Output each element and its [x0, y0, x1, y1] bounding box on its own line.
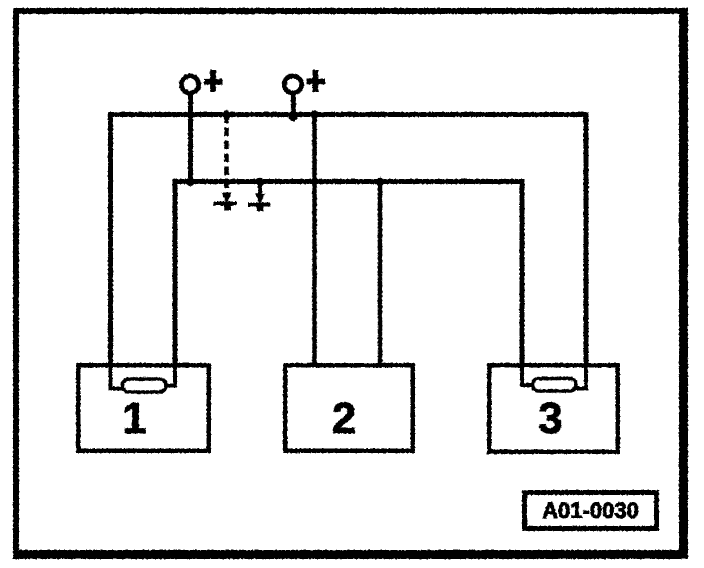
wire to box2 right: [378, 182, 383, 366]
wire box3 right into fuse: [574, 365, 586, 389]
ground symbol 2: [248, 194, 271, 212]
svg-text:1: 1: [122, 394, 146, 443]
junction dots: [186, 110, 384, 186]
box 2: [285, 365, 413, 451]
terminal circle 2: [284, 76, 301, 93]
wire box1 left into fuse: [111, 365, 125, 389]
plus sign 2: [307, 70, 326, 92]
box 3: [489, 365, 618, 452]
box 1: [78, 365, 209, 451]
fuse F3: [533, 379, 577, 392]
wire box3 left into fuse: [522, 365, 534, 385]
plus sign 1: [204, 70, 223, 92]
ground symbol 1: [214, 193, 237, 211]
wire second bus: [175, 182, 522, 388]
fuse F1: [123, 379, 167, 392]
wire ground stem 2: [258, 180, 262, 198]
svg-text:3: 3: [538, 394, 562, 443]
wire dashed to ground: [224, 115, 229, 198]
wire to box2 left: [312, 115, 317, 366]
wire stem terminal 1: [188, 92, 193, 183]
terminal circle 1: [181, 76, 198, 93]
drawing number box: [525, 493, 657, 529]
wire stem terminal 2: [291, 92, 296, 118]
svg-text:A01-0030: A01-0030: [542, 498, 639, 523]
wire box1 right into fuse: [163, 365, 175, 386]
svg-text:2: 2: [332, 394, 356, 443]
wire top bus: [111, 115, 587, 391]
